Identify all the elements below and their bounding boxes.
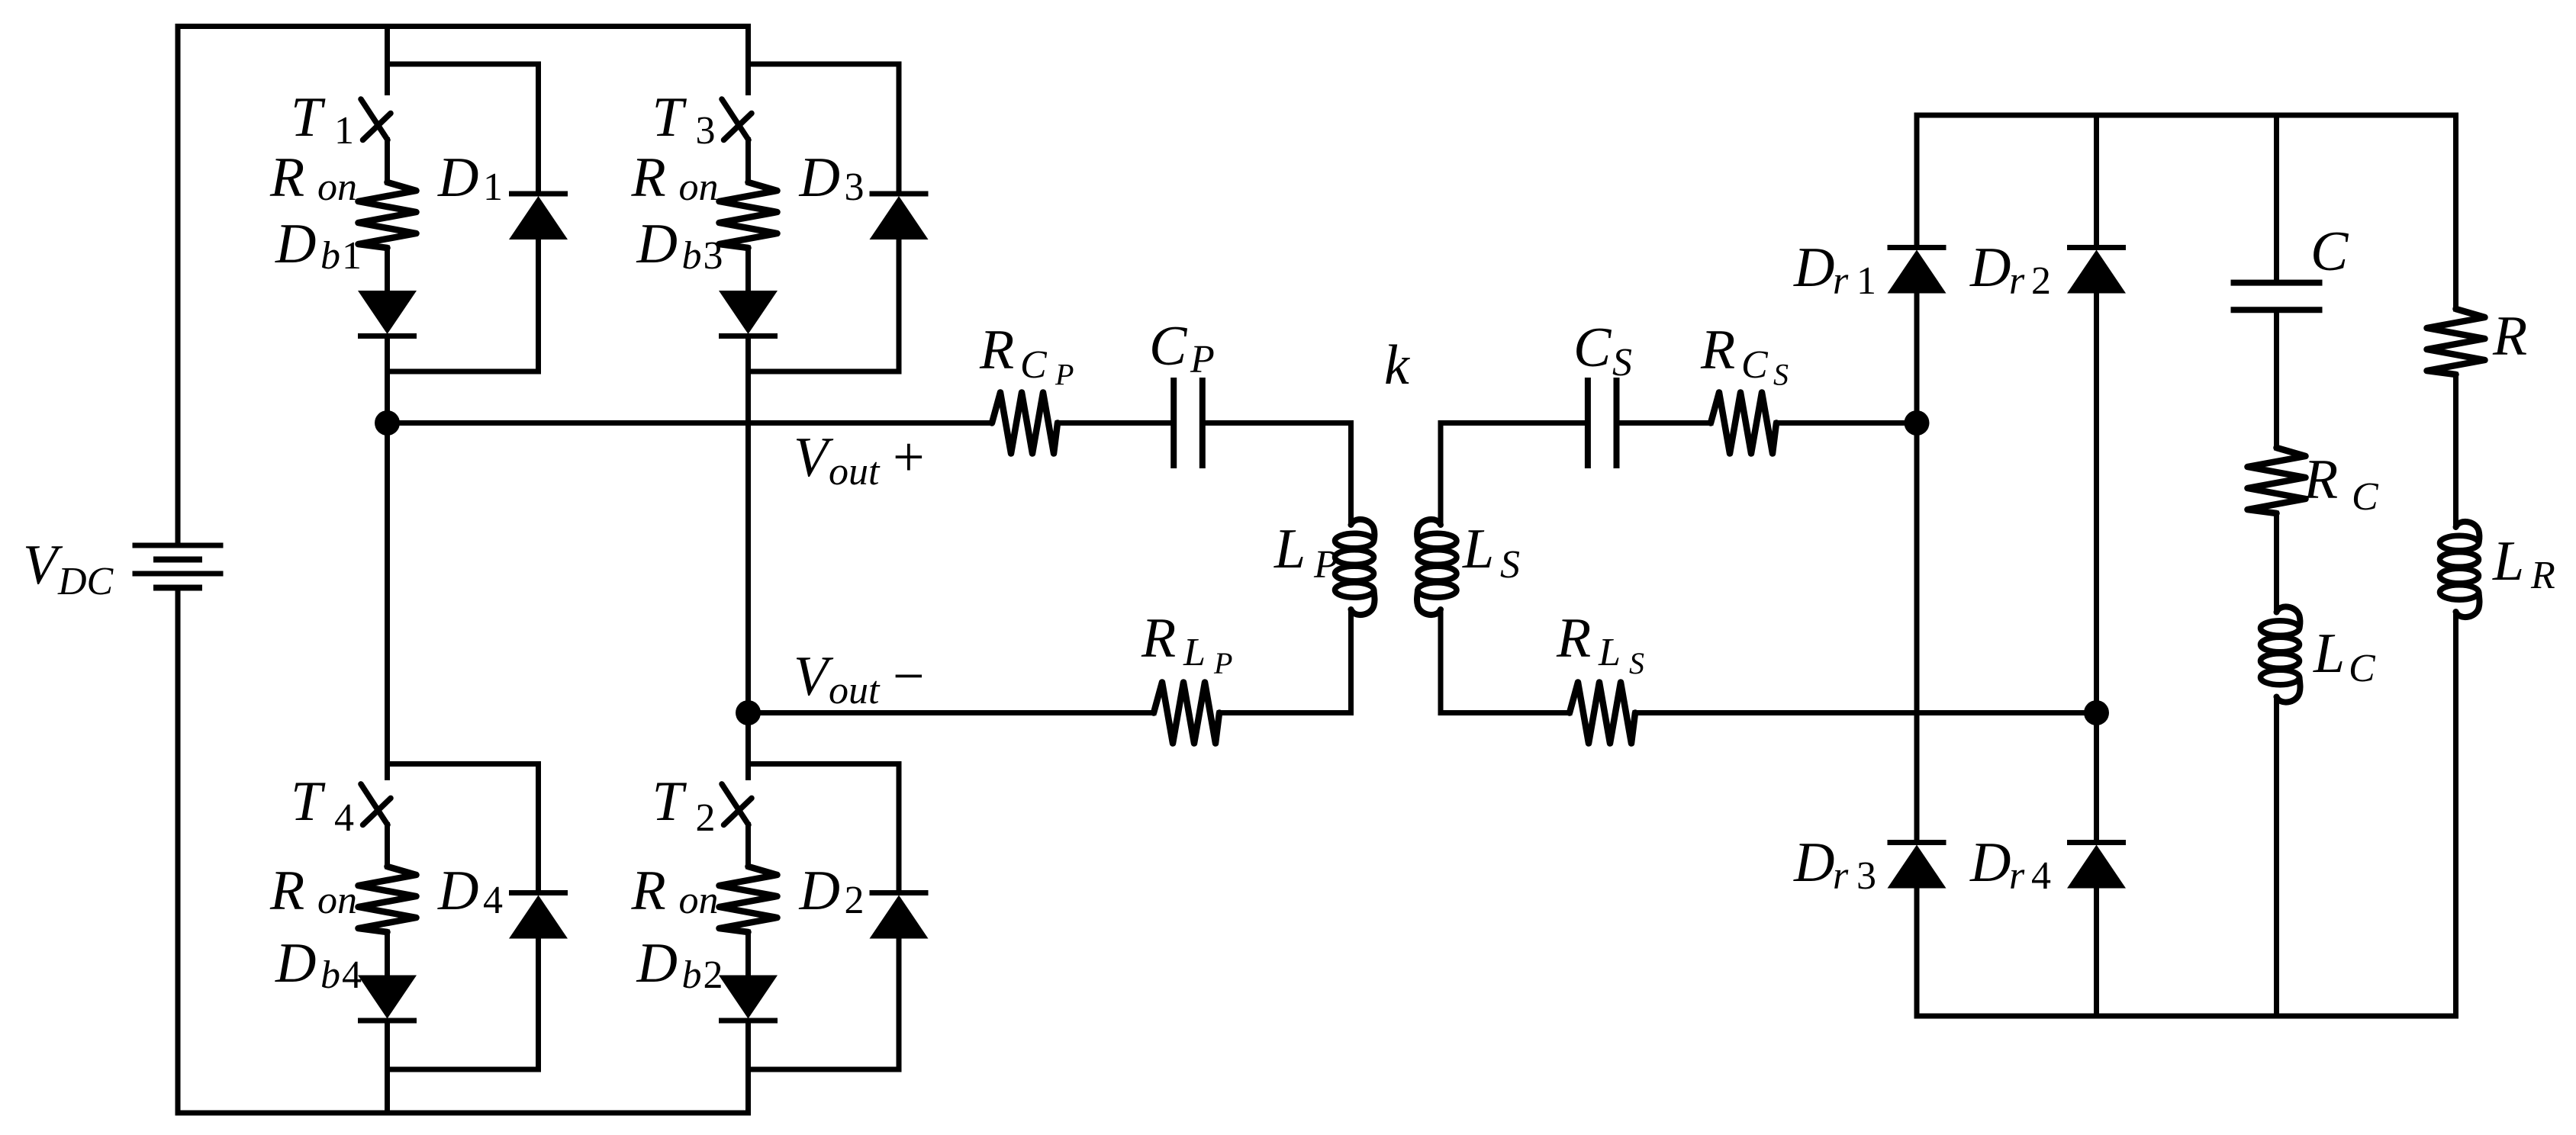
inductor LC: [2261, 606, 2301, 702]
wire T2 above switch: [745, 764, 751, 778]
resistor RCP: [992, 393, 1058, 454]
wire T1-D1 group top: [388, 62, 539, 67]
wire CS to RCS: [1620, 420, 1711, 426]
resistor Ron (T3): [720, 182, 778, 248]
wire RCS to rectifier node: [1776, 420, 1917, 426]
switch T1: [361, 99, 391, 140]
svg-text:1: 1: [342, 234, 362, 278]
battery VDC: [133, 545, 224, 588]
svg-text:P: P: [1190, 338, 1215, 381]
wire T4-D4 group top: [388, 761, 539, 767]
wire Vout+ rail: [388, 420, 992, 426]
label Dr1: [1793, 236, 1876, 303]
wire CP to LP: [1206, 423, 1351, 522]
svg-text:−: −: [893, 645, 925, 708]
diode D4 (cathode up): [509, 893, 568, 939]
wire RC to LC: [2274, 513, 2279, 609]
svg-text:L: L: [1462, 518, 1494, 580]
wire D1 top wire: [536, 64, 541, 191]
svg-text:1: 1: [483, 166, 503, 209]
svg-text:r: r: [2009, 854, 2025, 898]
wire Db1 to group bottom: [385, 336, 390, 372]
svg-text:R: R: [1556, 607, 1591, 670]
resistor R: [2427, 309, 2485, 375]
svg-text:D: D: [636, 213, 678, 275]
wire LS top to CS: [1441, 420, 1585, 426]
svg-text:L: L: [1274, 518, 1306, 580]
svg-text:D: D: [275, 932, 316, 995]
wire D2 bottom wire: [897, 939, 902, 1070]
svg-text:D: D: [1793, 236, 1834, 299]
label Db3: [636, 213, 723, 278]
wire D4 bottom wire: [536, 939, 541, 1070]
label Ron (T3): [631, 146, 719, 209]
wire D3 bottom wire: [897, 240, 902, 371]
svg-text:4: 4: [342, 953, 362, 997]
svg-text:R: R: [631, 146, 666, 209]
wire LR to bottom rail: [2453, 613, 2458, 1017]
wire Dr4 bottom wire: [2094, 889, 2099, 1017]
wire Dr1-Dr3 leg: [1914, 294, 1920, 840]
svg-text:2: 2: [696, 796, 716, 840]
wire T3 switch to Ron: [745, 140, 751, 183]
wire Ron to Db1: [385, 248, 390, 291]
svg-text:b: b: [682, 953, 702, 997]
wire T4 leg to bottom rail: [385, 1069, 390, 1113]
wire T1 leg stub: [385, 27, 390, 65]
svg-text:on: on: [679, 879, 719, 922]
wire Ron to Db2: [745, 932, 751, 976]
wire top rail to T3 leg: [388, 27, 749, 65]
wire T3-D3 group top: [749, 62, 900, 67]
svg-text:P: P: [1055, 358, 1074, 392]
svg-text:R: R: [2303, 449, 2338, 511]
wire T4 switch to Ron: [385, 825, 390, 867]
wire rectifier top rail: [1917, 113, 2456, 118]
svg-text:R: R: [2530, 554, 2555, 597]
node Vout- junction: [736, 700, 761, 725]
resistor RCS: [1711, 393, 1776, 454]
wire T1 leg to Vout+ node: [385, 371, 390, 423]
wire T1 switch to Ron: [385, 140, 390, 183]
label RCP: [979, 319, 1074, 392]
resistor Ron (T1): [359, 182, 417, 248]
svg-text:out: out: [829, 450, 881, 494]
svg-text:C: C: [2310, 220, 2349, 283]
label LR: [2492, 530, 2555, 597]
wire LS top leg: [1438, 423, 1444, 522]
node rectifier AC+ junction: [1905, 410, 1930, 436]
wire T2 switch to Ron: [745, 825, 751, 867]
capacitor CP: [1174, 378, 1203, 468]
wire D3 top wire: [897, 64, 902, 191]
svg-text:C: C: [1573, 317, 1612, 379]
svg-text:R: R: [631, 860, 666, 922]
svg-text:4: 4: [334, 796, 354, 840]
diode D2 (cathode up): [870, 893, 929, 939]
wire Db2 to group bottom: [745, 1021, 751, 1069]
label Vout-: [794, 645, 925, 712]
svg-text:2: 2: [704, 953, 723, 997]
label LC: [2313, 622, 2376, 690]
switch T4: [361, 784, 391, 825]
wire T2-D2 group top: [749, 761, 900, 767]
label D1: [437, 146, 503, 209]
svg-text:on: on: [317, 166, 357, 209]
label T4: [291, 770, 354, 840]
wire R to LR: [2453, 375, 2458, 524]
label T3: [652, 86, 716, 153]
label VDC: [23, 534, 114, 603]
wire top rail to C: [2274, 115, 2279, 281]
wire T3 above switch: [745, 64, 751, 93]
diode Dr2 (cathode up): [2067, 248, 2126, 294]
diode Dr1 (cathode up): [1888, 248, 1946, 294]
svg-text:D: D: [1969, 831, 2011, 894]
wire D2 top wire: [897, 764, 902, 891]
svg-text:R: R: [2492, 305, 2527, 368]
svg-text:3: 3: [696, 109, 716, 153]
wire VDC bottom-left rail: [178, 590, 388, 1113]
resistor Ron (T2): [720, 867, 778, 932]
svg-text:3: 3: [845, 166, 865, 209]
svg-text:S: S: [1612, 341, 1632, 384]
label C: [2310, 220, 2349, 283]
svg-text:DC: DC: [57, 560, 114, 603]
svg-text:C: C: [1020, 343, 1048, 387]
svg-text:R: R: [979, 319, 1014, 381]
svg-text:3: 3: [1856, 854, 1876, 898]
wire Db4 to group bottom: [385, 1021, 390, 1069]
svg-text:D: D: [437, 860, 478, 922]
svg-text:C: C: [2349, 647, 2376, 690]
svg-text:+: +: [893, 426, 925, 489]
svg-text:D: D: [799, 146, 840, 209]
label Vout+: [794, 426, 925, 494]
wire D4 top wire: [536, 764, 541, 891]
capacitor C: [2231, 283, 2323, 310]
svg-text:R: R: [269, 860, 304, 922]
node rectifier AC- junction: [2084, 700, 2109, 725]
label CS: [1573, 317, 1632, 384]
wire D1 bottom wire: [536, 240, 541, 371]
svg-text:k: k: [1384, 334, 1410, 397]
diode Dr3 (cathode up): [1888, 843, 1946, 889]
label Ron (T4): [269, 860, 357, 922]
svg-text:T: T: [291, 770, 326, 833]
wire rectifier bottom rail: [1917, 1014, 2456, 1019]
wire LP to RLP: [1219, 613, 1351, 713]
label Dr3: [1793, 831, 1876, 898]
svg-text:b: b: [320, 953, 340, 997]
label RC: [2303, 449, 2379, 519]
label Dr4: [1969, 831, 2051, 898]
diode Db2 (cathode down): [719, 976, 778, 1021]
svg-text:L: L: [2313, 622, 2345, 685]
svg-text:L: L: [1598, 631, 1621, 674]
capacitor CS: [1588, 378, 1617, 468]
diode D3 (cathode up): [870, 194, 929, 240]
wire T1 above switch: [385, 64, 390, 93]
label RCS: [1700, 319, 1789, 392]
wire T4-D4 group bottom: [388, 1067, 539, 1072]
label D2: [799, 860, 865, 922]
resistor RLP: [1154, 683, 1219, 744]
svg-text:L: L: [1183, 631, 1206, 674]
switch T2: [722, 784, 752, 825]
svg-text:T: T: [652, 770, 687, 833]
svg-text:4: 4: [483, 879, 503, 922]
svg-text:S: S: [1500, 543, 1520, 587]
svg-text:r: r: [1833, 854, 1849, 898]
wire T3-D3 group bottom: [749, 369, 900, 375]
svg-text:on: on: [679, 166, 719, 209]
wire RLP to Vout- node: [749, 710, 1154, 715]
svg-text:R: R: [1700, 319, 1735, 381]
diode Db1 (cathode down): [358, 291, 417, 336]
wire VDC top-left rail: [178, 27, 388, 543]
resistor Ron (T4): [359, 867, 417, 932]
label Ron (T2): [631, 860, 719, 922]
inductor LR: [2440, 522, 2480, 617]
label D3: [799, 146, 865, 209]
svg-text:2: 2: [845, 879, 865, 922]
svg-text:D: D: [1793, 831, 1834, 894]
wire Dr2 top wire: [2094, 115, 2099, 245]
switch T3: [722, 99, 752, 140]
svg-text:P: P: [1213, 646, 1232, 680]
label RLS: [1556, 607, 1644, 680]
wire Ron to Db3: [745, 248, 751, 291]
wire Db3 to group bottom: [745, 336, 751, 372]
label Db2: [636, 932, 723, 997]
svg-text:b: b: [320, 234, 340, 278]
wire RCP to CP: [1058, 420, 1170, 426]
svg-text:S: S: [1773, 358, 1789, 392]
wire C to RC: [2274, 310, 2279, 448]
svg-text:T: T: [652, 86, 687, 149]
svg-text:P: P: [1313, 543, 1338, 587]
wire Ron to Db4: [385, 932, 390, 976]
label T1: [291, 86, 354, 153]
svg-text:out: out: [829, 669, 881, 712]
label Dr2: [1969, 236, 2051, 303]
wire T2-D2 group bottom: [749, 1067, 900, 1072]
wire left leg node to T4 group: [385, 423, 390, 764]
svg-text:R: R: [1141, 607, 1176, 670]
label k coupling: [1384, 334, 1410, 397]
label LS: [1462, 518, 1520, 587]
svg-text:on: on: [317, 879, 357, 922]
wire T4 above switch: [385, 764, 390, 778]
label T2: [652, 770, 716, 840]
label CP: [1149, 315, 1215, 381]
wire Dr3 bottom wire: [1914, 889, 1920, 1017]
label R: [2492, 305, 2527, 368]
label Db1: [275, 213, 362, 278]
svg-text:D: D: [799, 860, 840, 922]
svg-text:1: 1: [334, 109, 354, 153]
label D4: [437, 860, 503, 922]
resistor RLS: [1570, 683, 1635, 744]
svg-text:D: D: [1969, 236, 2011, 299]
svg-text:C: C: [1741, 343, 1769, 387]
wire top rail to R: [2453, 115, 2458, 309]
svg-text:S: S: [1629, 646, 1644, 680]
wire RLS to rectifier node: [1635, 710, 2097, 715]
svg-text:r: r: [2009, 259, 2025, 303]
diode Db3 (cathode down): [719, 291, 778, 336]
svg-text:R: R: [269, 146, 304, 209]
svg-text:r: r: [1833, 259, 1849, 303]
resistor RC: [2248, 448, 2306, 513]
wire right leg node to T2 group: [745, 713, 751, 764]
svg-text:C: C: [2352, 475, 2379, 519]
svg-text:b: b: [682, 234, 702, 278]
wire T1-D1 group bottom: [388, 369, 539, 375]
diode D1 (cathode up): [509, 194, 568, 240]
node Vout+ junction: [375, 410, 400, 436]
inductor LS: [1417, 519, 1457, 615]
wire bottom rail to T2 leg: [388, 1069, 749, 1113]
svg-text:L: L: [2492, 530, 2524, 593]
svg-text:D: D: [275, 213, 316, 275]
svg-text:1: 1: [1856, 259, 1876, 303]
diode Dr4 (cathode up): [2067, 843, 2126, 889]
svg-text:4: 4: [2031, 854, 2051, 898]
wire LS to RLS: [1441, 613, 1570, 713]
svg-text:T: T: [291, 86, 326, 149]
svg-text:D: D: [437, 146, 478, 209]
svg-text:D: D: [636, 932, 678, 995]
wire Dr1 top wire: [1914, 115, 1920, 245]
label LP: [1274, 518, 1338, 587]
svg-text:3: 3: [704, 234, 723, 278]
wire T3 leg to Vout- node: [745, 371, 751, 713]
inductor LP: [1335, 519, 1375, 615]
svg-text:C: C: [1149, 315, 1188, 378]
label RLP: [1141, 607, 1232, 680]
wire Dr2-Dr4 leg: [2094, 294, 2099, 840]
label Ron (T1): [269, 146, 357, 209]
label Db4: [275, 932, 362, 997]
diode Db4 (cathode down): [358, 976, 417, 1021]
wire LC to bottom rail: [2274, 700, 2279, 1016]
svg-text:2: 2: [2031, 259, 2051, 303]
